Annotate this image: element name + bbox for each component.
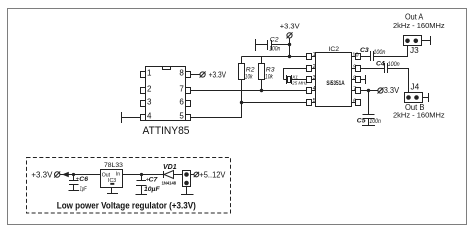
IC U1 ATTINY85 body [146,67,186,121]
connector J3 [404,36,422,46]
U1 pin 1 pad [141,72,146,78]
svg-text:IC2: IC2 [329,46,340,53]
connector XP1 [183,171,191,187]
wire U1 pin5 to IC2 pin5 (L path) [191,103,307,118]
wire down to C5 [368,91,370,115]
dashed regulator box [27,158,231,214]
svg-text:Out A: Out A [405,13,424,22]
terminal +5..12V [194,172,199,177]
wire +3.3V rail [242,56,307,58]
wire IC2 pin2 to crystal [284,69,307,80]
crystal X1 25MHz [284,79,287,81]
ground C6 [69,190,80,192]
svg-text:8: 8 [179,69,184,78]
IC2 right pads 10-6 [356,54,361,60]
terminal +3.3V reg [55,172,60,177]
svg-text:C4: C4 [376,61,385,68]
svg-text:1: 1 [313,52,316,58]
svg-text:+3.3V: +3.3V [280,22,300,31]
svg-text:2kHz - 160MHz: 2kHz - 160MHz [393,21,445,30]
diode VD1 [163,171,165,178]
svg-text:78L33: 78L33 [104,162,123,169]
svg-text:6: 6 [179,98,184,107]
svg-text:C7: C7 [149,176,159,183]
svg-text:VD1: VD1 [163,164,177,171]
svg-text:100n: 100n [369,118,381,125]
U1 pin 5 pad [186,115,191,121]
U1 pin 3 pad [141,101,146,107]
svg-text:ATTINY85: ATTINY85 [143,125,190,137]
svg-text:1µF: 1µF [80,186,88,193]
wire U1 pin7 to IC2 pin4 [191,90,307,92]
svg-text:R2: R2 [246,67,255,74]
resistor R3 10k [259,64,265,80]
IC3 tab mark [110,183,114,185]
U1 pin 8 pad [186,72,191,78]
svg-text:C5: C5 [357,118,366,125]
IC3 78L33 body [101,170,123,188]
capacitor C7 lead [141,175,143,181]
connector J4 [405,93,423,103]
svg-text:X1: X1 [291,74,298,79]
wire IC3 to VD1 [123,174,164,176]
svg-text:100n: 100n [388,61,400,68]
svg-text:3: 3 [313,75,316,81]
svg-text:10k: 10k [265,74,273,81]
pin4 stub end bar [121,112,123,123]
terminal +3.3V top [287,33,292,38]
svg-text:10: 10 [352,53,358,59]
capacitor C2 100n [255,39,257,51]
svg-text:10k: 10k [245,74,253,81]
svg-text:3: 3 [147,98,152,107]
wire U1 pin8 to +3.3V terminal [191,74,200,76]
svg-text:2: 2 [147,85,152,94]
svg-text:C2: C2 [270,37,279,44]
svg-text:+3.3V: +3.3V [209,71,227,80]
U1 pin 7 pad [186,88,191,94]
svg-text:8: 8 [353,76,356,82]
wire IC2 pin7 to 3.3V terminal [361,90,378,92]
svg-text:Si5351A: Si5351A [326,80,344,87]
svg-text:J4: J4 [411,82,420,91]
svg-text:7: 7 [353,87,356,93]
wire U1 pin4 stub left [122,117,141,119]
svg-text:3.3V: 3.3V [384,86,400,95]
svg-text:1N4148: 1N4148 [162,180,177,185]
ground C7 [136,194,148,196]
svg-text:C6: C6 [79,176,88,183]
U1 pin 6 pad [186,101,191,107]
IC3 ground stub [111,188,113,194]
svg-text:9: 9 [353,65,356,71]
terminal +3.3V at U1 pin8 [200,72,205,77]
svg-text:+3.3V: +3.3V [31,170,52,180]
wire +3.3V terminal down [289,38,291,57]
svg-text:2: 2 [313,64,316,70]
junction C2/+3.3V [288,43,291,46]
svg-text:R3: R3 [266,67,275,74]
terminal 3.3V [378,88,383,93]
IC2 Si5351A body [316,53,352,107]
connector ground stub [186,187,188,195]
capacitor C5 100n [363,114,375,116]
wire to IC3 [60,174,101,176]
svg-text:C3: C3 [360,47,369,54]
capacitor C3 100n [370,51,372,61]
ground C5 [362,125,375,127]
svg-text:25 MHz: 25 MHz [291,81,308,86]
resistor R2 10k [239,64,245,80]
U1 pin 4 pad [141,115,146,121]
svg-text:Low power Voltage regulator (+: Low power Voltage regulator (+3.3V) [57,199,196,210]
svg-text:+5..12V: +5..12V [199,170,225,180]
junction R3 bottom [260,89,263,92]
junction C6 [72,173,75,176]
svg-text:1: 1 [147,69,152,78]
svg-text:J3: J3 [410,46,419,55]
svg-text:5: 5 [313,98,316,104]
U1 pin 2 pad [141,88,146,94]
svg-text:10µF: 10µF [144,186,160,193]
svg-text:2kHz - 160MHz: 2kHz - 160MHz [393,111,445,120]
svg-text:100n: 100n [269,46,280,53]
IC2 left pads 1-5 [307,54,312,60]
junction IC2 pin7 [367,89,370,92]
wire IC2 pin10 to C3 [361,56,371,58]
wire IC2 pin9 to C4 [361,68,385,70]
svg-text:In: In [116,172,120,178]
svg-text:7: 7 [179,85,184,94]
svg-text:4: 4 [313,86,316,92]
svg-text:5: 5 [179,112,184,121]
svg-text:100n: 100n [373,49,385,56]
svg-text:4: 4 [147,112,152,121]
junction R2 bottom [240,101,243,104]
svg-text:6: 6 [353,99,356,105]
capacitor C4 100n [384,63,386,73]
arrowhead at +3.3V reg [62,172,69,178]
junction C7 [140,173,143,176]
IC2 pin8 stub [361,79,366,81]
junction rail/+3.3V [288,55,291,58]
capacitor C6 lead [73,175,75,181]
